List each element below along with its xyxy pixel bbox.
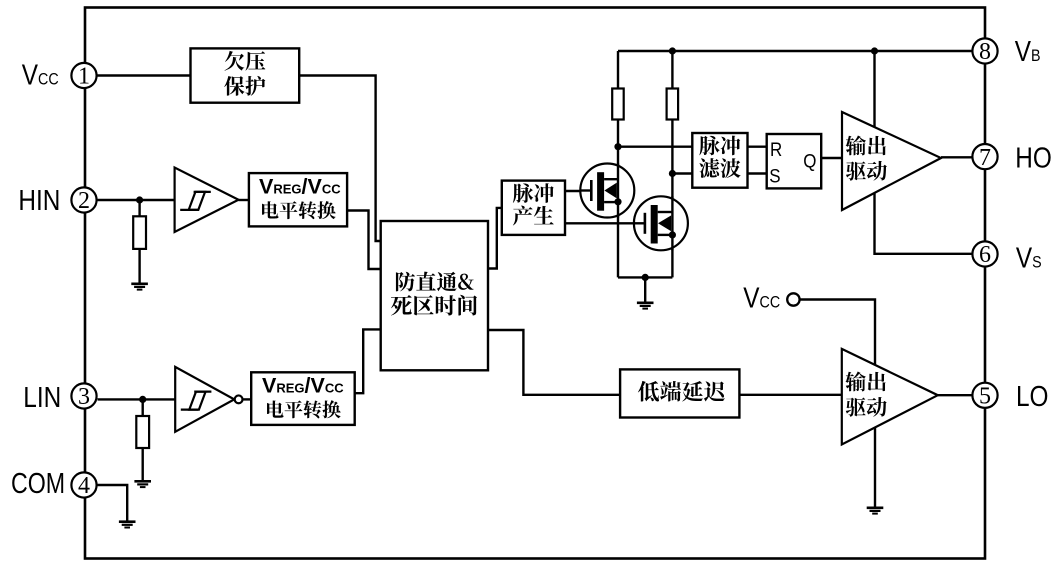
junction node S [669,170,676,177]
text 脉冲 line 1 of U6 [699,136,740,156]
svg-text:1: 1 [78,64,90,90]
wire A1 output to HIN level shifter [239,199,249,201]
text 保护 line 2 of U1 [224,76,265,96]
text 脉冲 line 1 of U5 [513,183,554,203]
resistor R4 (LIN pulldown) [136,416,149,448]
schmitt-trigger buffer A1 (HIN) [175,168,239,233]
junction Q2 source on vertical rail [669,231,676,238]
resistor R2 (right pull-up) [667,89,679,120]
amplifier U10 LO output driver (输出驱动) [842,349,938,445]
junction Q1 source on vertical rail [614,198,621,205]
text pin label VS [1016,242,1042,274]
text Q output label of U7 [803,149,816,171]
text pin label HO [1015,141,1052,173]
text pin label VB [1015,35,1041,67]
pin 6 VS [972,241,997,268]
wire junction down to R3 [138,200,140,216]
transistor Q1 (high-side level shift) [580,164,634,218]
junction low rail center [642,274,649,281]
wire pin2 to schmitt buffer A1 [98,199,175,201]
wire node S to pulse-filter S input [672,172,692,174]
ground (HIN pulldown) [131,283,148,291]
wire node R vertical down through Q1 to low rail [617,147,619,278]
text pin label VCC [22,59,59,91]
block U4 anti shoot-through & dead time (防直通&死区时间) [381,221,488,370]
wire low rail between Q1 and Q2 sources [618,276,672,278]
ground (COM) [119,520,136,528]
svg-text:5: 5 [979,384,991,410]
text 驱动 line 2 of U10 [846,397,887,417]
wire right pull-up vertical from VB rail to R2 [671,51,673,89]
text 输出 line 1 of U8 [846,136,886,156]
svg-text:LO: LO [1016,380,1048,412]
pin 1 VCC [71,63,96,90]
text 产生 line 2 of U5 [513,206,554,226]
svg-text:Q: Q [803,149,816,171]
resistor R1 (left pull-up) [612,89,624,120]
amplifier U8 HO output driver (输出驱动) [842,112,941,210]
pin 2 HIN [71,187,96,214]
block U2 HIN level shifter (VREG/VCC 电平转换) [249,173,347,226]
wire U3 output right-up into dead-time block [355,329,381,393]
node VCC terminal circle [787,293,799,305]
text S input label of U7 [769,164,780,186]
text 电平转换 line 2 of U3 [267,400,341,418]
block U6 pulse filter (脉冲滤波) [692,133,747,188]
text 死区时间 line 2 of U4 [391,295,477,316]
wire pulse filter to latch S input [748,172,767,174]
wire node R to pulse-filter R input [618,145,692,147]
pin 7 HO [972,144,997,171]
transistor Q2 (low-side level shift) [634,196,688,250]
text 输出 line 1 of U10 [845,372,885,392]
block U3 LIN level shifter (VREG/VCC 电平转换) [251,372,355,425]
wire UVLO output right then down into dead-time block [299,76,381,242]
pin 8 VB [972,38,997,65]
wire VB rail from top-left corner of rail to pin 8 [618,50,972,52]
ground (LIN pulldown) [134,480,151,488]
wire U5 output to Q2 gate [565,222,644,224]
text 低端延迟 label of U9 [638,381,725,402]
wire node S vertical down through Q2 to low rail [671,174,673,278]
wire left pull-up vertical from VB rail to R1 [617,51,619,89]
junction VB rail / HO driver supply [871,47,878,54]
wire U2 output right-down into dead-time block [347,211,381,270]
block U9 low-side delay (低端延迟) [620,369,739,417]
wire HO driver bottom to VS line [875,193,972,254]
text pin label HIN [18,184,60,216]
junction HIN / pulldown resistor [136,196,143,203]
text pin label LIN [23,381,61,413]
svg-text:HIN: HIN [18,184,60,216]
pin 3 LIN [71,383,96,410]
svg-text:6: 6 [979,242,991,268]
junction VB rail / R2 branch [669,47,676,54]
block U5 pulse generator (脉冲产生) [502,181,565,235]
wire U5 output to Q1 gate [565,190,591,192]
wire latch Q output to HO driver [821,157,842,159]
svg-text:8: 8 [979,39,991,65]
text R input label of U7 [770,138,782,160]
pin 4 COM [71,472,96,499]
wire A2 bubble to LIN level shifter [243,398,252,400]
text 电平转换 line 2 of U2 [262,201,336,219]
block U7 RS latch [767,134,822,188]
pin 5 LO [972,383,997,410]
junction LIN / pulldown resistor [139,396,146,403]
text pin label COM [11,467,65,500]
wire pin4 to ground [98,485,128,521]
svg-text:7: 7 [979,145,991,171]
text 驱动 line 2 of U8 [846,161,887,181]
wire R3 to ground [138,249,140,283]
wire pin1 to UVLO block [98,74,191,76]
svg-text:2: 2 [78,188,90,214]
wire U4 high-side output right-up to pulse generator [488,208,502,269]
ground (LO driver) [867,507,884,515]
svg-text:4: 4 [78,473,90,499]
text 欠压 line 1 of U1 [225,51,266,71]
svg-text:3: 3 [78,384,90,410]
ground (level-shift common) [637,302,654,310]
svg-text:R: R [770,138,782,160]
wire LO driver output to pin 5 [938,394,972,396]
wire R2 bottom to node S [671,120,673,174]
block U1 undervoltage protection (欠压保护) [191,48,300,102]
text pin label LO [1016,380,1048,412]
svg-text:COM: COM [11,467,65,500]
text 防直通& line 1 of U4 [396,272,474,292]
wire pin3 to inverting schmitt A2 [98,398,176,400]
inverting schmitt-trigger A2 (LIN) [175,367,242,432]
wire R1 bottom to node R [617,120,619,147]
wire VCC node to LO driver top [800,300,875,366]
text 滤波 line 2 of U6 [699,158,740,178]
text net label VCC (internal supply) [743,282,780,314]
wire junction down to R4 [141,399,143,416]
wire pulse filter to latch R input [748,145,767,147]
svg-text:LIN: LIN [23,381,61,413]
wire HO driver output to pin 7 [941,156,972,158]
wire R4 to ground [141,448,143,481]
wire LO driver bottom to ground [874,427,876,507]
junction node R [614,143,621,150]
wire low rail to ground stem [644,277,646,302]
wire U4 low-side output right-down to low-side delay [488,330,620,395]
svg-text:S: S [769,164,780,186]
svg-text:HO: HO [1015,141,1052,173]
resistor R3 (HIN pulldown) [133,216,146,249]
wire U9 output to LO driver [739,394,841,396]
wire VB rail down to HO driver top [873,51,875,128]
